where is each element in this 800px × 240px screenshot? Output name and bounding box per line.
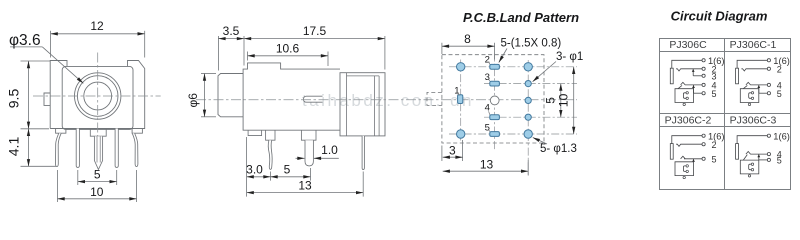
dimension 12 [51, 33, 145, 35]
wire sleeve to terminal 1 [672, 60, 702, 68]
side view: bent leg [268, 140, 272, 169]
svg-text:5: 5 [712, 154, 717, 164]
table header2 underline [660, 126, 791, 128]
dimension 8 extension lines [441, 43, 443, 54]
side view: rear block inner grooves [346, 73, 348, 136]
svg-text:4.1: 4.1 [6, 137, 22, 157]
wire caret to box [743, 85, 747, 88]
dimension 4.1 [28, 129, 30, 167]
svg-text:PJ306C-1: PJ306C-1 [730, 39, 777, 51]
land pattern: row centerline 2 [484, 83, 577, 85]
side view: threaded bushing (snout) [218, 74, 243, 117]
front view: left mounting tab [56, 129, 66, 134]
svg-text:8: 8 [464, 32, 471, 46]
dimension 4.1 extension line [21, 165, 57, 167]
dimension 8 [442, 45, 495, 47]
dimension 13 extension line right (land) [527, 160, 529, 176]
terminal 1(6) [767, 134, 770, 137]
center hole (white) [490, 96, 499, 105]
front view: face plate rounded rect [62, 66, 133, 129]
terminal 2 [767, 67, 770, 70]
terminal 1(6) [702, 134, 705, 137]
side view: main body outline [243, 63, 340, 130]
dimension 10.6 [248, 55, 329, 57]
terminal 2 [702, 67, 705, 70]
wire caret to box [743, 155, 747, 161]
switch arm to terminal 2 [676, 144, 702, 146]
tip contact caret [746, 152, 751, 155]
switch box [740, 89, 759, 103]
contact tick 4-5 [758, 85, 760, 93]
contact tick 4-5 [693, 85, 695, 93]
wire sleeve to terminal 1 [672, 136, 702, 144]
svg-text:13: 13 [298, 178, 312, 192]
tip contact caret [746, 82, 751, 85]
dimension 5 (land, vertical) [560, 84, 562, 118]
land pattern: row centerline 4 [484, 116, 577, 118]
svg-text:3.0: 3.0 [246, 163, 263, 177]
dimension 13 (side) [247, 192, 364, 194]
front view: left bent leg [56, 133, 62, 166]
pad hole top-right (1.3mm) [524, 63, 532, 71]
switch arm to terminal 2 [741, 69, 767, 71]
terminal 4 [767, 153, 770, 156]
svg-text:5-(1.5X 0.8): 5-(1.5X 0.8) [501, 38, 562, 50]
svg-text:5: 5 [712, 89, 717, 99]
jack sleeve bar [670, 68, 673, 84]
svg-text:5: 5 [777, 156, 782, 166]
switch box [675, 162, 694, 176]
wire terminal 4 [750, 153, 767, 155]
svg-text:3: 3 [485, 72, 490, 83]
contact tick 4-5 [758, 154, 760, 160]
svg-text:2: 2 [485, 55, 490, 66]
svg-text:5: 5 [485, 123, 490, 134]
terminal 5 [767, 92, 770, 95]
svg-text:5- φ1.3: 5- φ1.3 [540, 143, 577, 155]
terminal 5 [702, 92, 705, 95]
table row divider [660, 113, 791, 115]
leader to right row2 hole [533, 62, 556, 82]
front view: right bent leg [132, 133, 138, 166]
pad hole right row4 (1mm) [525, 114, 531, 120]
terminal 1(6) [702, 59, 705, 62]
dimension 3.0 (side) [247, 176, 271, 178]
front view: vertical centerline [97, 53, 99, 148]
contact tick 5-box [693, 159, 695, 162]
wire terminal 3 [693, 75, 702, 77]
svg-text:3.5: 3.5 [223, 24, 240, 38]
pad slot pin4 [490, 115, 500, 120]
svg-text:10.6: 10.6 [276, 41, 300, 55]
svg-text:2: 2 [777, 64, 782, 74]
tip contact caret [681, 82, 686, 85]
dimension 10 (land, vertical) [573, 67, 575, 134]
dimension 3 extension lines (land) [441, 146, 443, 162]
wire terminal 5 [684, 158, 702, 160]
front view: right pin [115, 129, 118, 168]
svg-text:5: 5 [284, 163, 291, 177]
side view: rear pin [362, 136, 364, 170]
dimension 9.5 [28, 61, 30, 129]
wire terminal 5 [694, 92, 703, 94]
svg-text:PJ306C: PJ306C [669, 39, 707, 51]
dimension 12 extension lines [50, 31, 52, 58]
svg-text:taihabdz. con. dn: taihabdz. con. dn [302, 91, 474, 110]
land pattern: column centerline left [460, 60, 462, 142]
dimension dia 6 [204, 74, 206, 117]
tip contact caret [681, 156, 686, 159]
switch box [675, 89, 694, 103]
dimension 9.5 extension lines [21, 60, 51, 62]
pad slot pin3 [490, 81, 500, 86]
svg-text:10: 10 [557, 93, 571, 107]
svg-text:3: 3 [449, 143, 456, 157]
side view: solder lug shoulders [301, 130, 316, 140]
jack sleeve bar [670, 144, 673, 160]
terminal 5 [767, 158, 770, 161]
side view: solder lug pin [305, 140, 313, 166]
terminal 3 [702, 74, 705, 77]
side view: leg tab [266, 130, 275, 140]
front view: outer circle of bushing [75, 73, 121, 119]
dimension 5 (front) [78, 181, 117, 183]
pad hole bottom-left (1.3mm) [457, 130, 465, 138]
svg-text:Circuit Diagram: Circuit Diagram [671, 8, 768, 23]
land pattern: row centerline 5 [449, 133, 577, 135]
svg-text:1(6): 1(6) [773, 131, 790, 141]
jack sleeve bar [736, 144, 739, 160]
wire sleeve to terminal 1 [737, 60, 767, 68]
pad slot pin5 [490, 132, 500, 137]
front view: horizontal centerline [33, 95, 161, 97]
table center vertical line [724, 39, 726, 190]
dimension dia 6 extension lines [201, 73, 216, 75]
svg-text:P.C.B.Land Pattern: P.C.B.Land Pattern [463, 10, 579, 25]
terminal 5 [702, 157, 705, 160]
terminal 4 [702, 83, 705, 86]
side view: rear block [340, 73, 385, 136]
front view: left side tab [44, 93, 50, 105]
front view: jack body outline [50, 61, 145, 129]
terminal 1(6) [767, 59, 770, 62]
front view: inner ring of bushing [77, 76, 118, 117]
dimension 10 (front) [58, 198, 137, 200]
pad hole top-left (1.3mm) [457, 63, 465, 71]
leader to bottom-right hole [533, 138, 547, 145]
dimension 3.5 / 17.5 extension lines [217, 36, 219, 71]
front view: left pin [76, 129, 79, 168]
front view: center pin with pointed tip [94, 136, 102, 169]
wire terminal 5 [759, 92, 768, 94]
svg-text:1.0: 1.0 [321, 143, 338, 157]
wire terminal 5 [759, 159, 768, 161]
svg-text:PJ306C-3: PJ306C-3 [730, 115, 777, 127]
side view / land pattern shared centerline [196, 99, 577, 101]
svg-text:2: 2 [712, 140, 717, 150]
pad hole right row2 (1mm) [525, 81, 531, 87]
dimension 3.5 [218, 38, 244, 40]
front view: center pin inner lines [96, 136, 98, 162]
dimension 13 (land) [443, 170, 529, 172]
jack sleeve bar [736, 68, 739, 84]
svg-text:5: 5 [777, 89, 782, 99]
leader to slot 2 [499, 49, 507, 63]
svg-text:13: 13 [480, 157, 494, 171]
bottom dims extension lines (side) [246, 137, 248, 197]
front view: right mounting tab [132, 129, 142, 134]
svg-text:17.5: 17.5 [303, 24, 327, 38]
wire terminal 4 [685, 84, 702, 86]
dimension 17.5 [244, 38, 385, 40]
svg-text:3- φ1: 3- φ1 [556, 51, 583, 63]
svg-text:12: 12 [90, 19, 104, 33]
dimension 5 (side) [271, 176, 311, 178]
terminal 4 [767, 83, 770, 86]
pad hole right row3 (1mm) [525, 97, 531, 103]
table header1 underline [660, 51, 791, 53]
svg-text:5: 5 [544, 97, 558, 104]
switch box [740, 160, 759, 174]
land pattern: dashed component outline [442, 55, 544, 143]
pad slot pin1 (vertical) [458, 95, 463, 104]
dimension 3 (land) [443, 156, 463, 158]
wire caret to box [678, 85, 682, 88]
terminal 2 [702, 143, 705, 146]
contact tick 2-3 [692, 69, 694, 76]
wire terminal 4 [750, 84, 767, 86]
dimension 1.0 arrows [296, 157, 305, 159]
dimension 5 extension lines (front pins) [77, 170, 79, 185]
land pattern: column centerline middle [494, 54, 496, 152]
dimension 10.6 extension lines [247, 52, 249, 61]
wire sleeve to terminal 1 [737, 136, 767, 144]
front view: center pin collar [90, 129, 106, 137]
svg-text:φ6: φ6 [186, 93, 200, 108]
svg-text:PJ306C-2: PJ306C-2 [665, 115, 712, 127]
svg-text:5: 5 [94, 167, 101, 181]
dimension 10 extension lines (front legs) [57, 170, 59, 202]
land pattern: dashed bushing tab [427, 92, 442, 105]
svg-text:10: 10 [90, 185, 104, 199]
pad hole bottom-right (1.3mm) [524, 130, 532, 138]
leader for dia 3.6 [10, 46, 42, 48]
table outer border [660, 39, 791, 190]
svg-text:9.5: 9.5 [6, 89, 22, 109]
land pattern: column centerline right [527, 60, 529, 176]
switch arm to terminal 2 [676, 69, 702, 71]
side view: bottom-left step [248, 130, 262, 135]
land pattern: row centerline 1 [449, 66, 577, 68]
front view: jack hole circle [84, 82, 112, 110]
side view: contact nub on centerline [304, 96, 323, 102]
pad slot pin2 [490, 64, 500, 69]
